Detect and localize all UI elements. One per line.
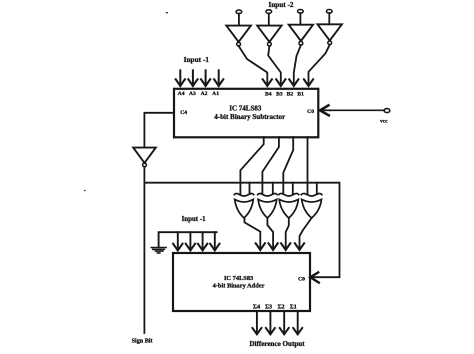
wire: C4 output to sign inverter	[144, 113, 174, 148]
wire: sign net stub to XOR2	[272, 183, 274, 194]
wire: INV1 output to B1	[309, 45, 330, 86]
IC U3 74LS83 4-bit binary adder	[173, 253, 310, 311]
svg-text:Σ1: Σ1	[290, 303, 297, 310]
wire: subtractor D4 output to XOR1 input	[240, 137, 263, 194]
inverter INV2 (Input-2 bit 2, drives B2)	[289, 10, 313, 46]
pin arrow adder A2	[198, 232, 207, 250]
ground	[151, 248, 166, 254]
svg-text:Σ4: Σ4	[253, 303, 260, 310]
svg-text:A1: A1	[212, 91, 219, 97]
output arrow &#931;4	[252, 311, 261, 334]
pin arrow C0 (chevron into subtractor)	[320, 105, 329, 115]
xor gate X4	[301, 193, 322, 218]
pin arrow adder A4	[173, 232, 182, 250]
pin arrow A2	[201, 70, 210, 86]
svg-text:A2: A2	[201, 91, 208, 97]
svg-text:IC 74LS83: IC 74LS83	[224, 275, 253, 282]
IC U1 74LS83 4-bit binary subtractor	[174, 89, 318, 138]
svg-text:B3: B3	[276, 91, 283, 97]
wire: grounded A-input bus	[159, 232, 217, 247]
wire: sign bit vertical run	[143, 167, 145, 333]
pin arrow adder B4	[256, 243, 265, 250]
svg-text:B2: B2	[287, 91, 294, 97]
output arrow &#931;2	[280, 311, 289, 334]
xor gate X1	[234, 193, 253, 218]
wire: sign net stub to XOR3	[292, 183, 294, 194]
svg-text:Sign Bit: Sign Bit	[132, 338, 153, 344]
svg-text:Σ2: Σ2	[278, 303, 285, 310]
pin arrow C0 (chevron into adder)	[310, 272, 319, 282]
svg-text:C4: C4	[180, 110, 187, 116]
vcc terminal	[380, 109, 390, 125]
stray scan dot (left)	[84, 190, 86, 192]
svg-text:4-bit Binary Subtractor: 4-bit Binary Subtractor	[214, 113, 285, 121]
wire: subtractor D3 output to XOR2 input	[262, 137, 279, 194]
svg-text:Input -1: Input -1	[182, 216, 206, 223]
output arrow &#931;1	[293, 311, 302, 334]
stray scan dot (top)	[166, 12, 168, 14]
inverter INV3 (Input-2 bit 3, drives B3)	[257, 10, 281, 46]
pin arrow B2	[289, 79, 298, 86]
pin arrow A1	[214, 70, 223, 86]
svg-text:B4: B4	[265, 91, 272, 97]
wire: XOR3 output to adder B2	[286, 218, 289, 250]
pin arrow adder A3	[186, 232, 195, 250]
wire: sign net horizontal to XOR gates and feedback	[144, 183, 339, 278]
svg-text:Σ3: Σ3	[265, 303, 272, 310]
svg-text:Input -2: Input -2	[269, 1, 294, 9]
wire: INV4 output to B4	[239, 46, 268, 86]
pin arrow A3	[188, 70, 197, 86]
svg-text:C0: C0	[298, 276, 305, 282]
wire: XOR1 output to adder B4	[245, 218, 261, 250]
inverter INV4 (Input-2 bit 4, drives B4)	[226, 10, 251, 46]
svg-text:C0: C0	[307, 109, 314, 115]
pin arrow adder B1	[295, 243, 304, 250]
svg-text:Input -1: Input -1	[184, 55, 210, 64]
pin arrow adder A1	[210, 232, 219, 250]
inverter INV1 (Input-2 bit 1, drives B1)	[318, 10, 342, 45]
inverter U2 (sign bit)	[133, 148, 156, 167]
pin arrow adder B3	[269, 243, 278, 250]
svg-text:A4: A4	[178, 91, 185, 97]
wire: vcc to subtractor C0	[330, 109, 384, 111]
svg-text:vcc: vcc	[380, 118, 388, 124]
wire: sign net stub to XOR1	[249, 183, 251, 194]
svg-text:Difference Output: Difference Output	[249, 340, 305, 348]
wire: subtractor D2 output to XOR3 input	[283, 137, 293, 194]
wire: XOR2 output to adder B3	[267, 218, 273, 250]
pin arrow B1	[304, 79, 313, 86]
pin arrow adder B2	[281, 243, 290, 250]
svg-text:B1: B1	[297, 91, 304, 97]
pin arrow B4	[263, 79, 272, 86]
pin arrow B3	[276, 79, 285, 86]
xor gate X2	[258, 193, 277, 218]
pin arrow A4	[176, 70, 185, 86]
svg-text:A3: A3	[189, 91, 196, 97]
wire: sign net stub to XOR4	[316, 183, 318, 194]
wire: INV2 output to B2	[294, 45, 301, 86]
wire: XOR4 output to adder B1	[300, 218, 312, 250]
output arrow &#931;3	[266, 311, 275, 334]
wire: subtractor D1 output to XOR4 input	[307, 137, 309, 194]
xor gate X3	[279, 193, 299, 218]
svg-text:IC 74LS83: IC 74LS83	[229, 104, 262, 112]
wire: INV3 output to B3	[268, 46, 281, 86]
svg-text:4-bit Binary Adder: 4-bit Binary Adder	[213, 283, 265, 290]
